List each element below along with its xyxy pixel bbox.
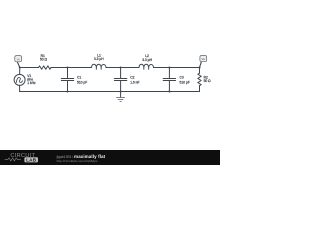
label R2 value <box>204 75 212 83</box>
svg-text:LAB: LAB <box>26 158 37 163</box>
svg-text:1.6 nF: 1.6 nF <box>130 81 139 85</box>
label L1 value <box>94 54 104 62</box>
svg-text:1 kHz: 1 kHz <box>27 81 36 85</box>
wire bottom rail <box>20 91 200 93</box>
capacitor C1 <box>61 68 73 92</box>
node junction Vo attach <box>198 66 200 68</box>
svg-text:3.3 µH: 3.3 µH <box>142 58 152 62</box>
wire L2 to right end <box>154 67 200 69</box>
labels <box>27 54 211 85</box>
svg-text:50 Ω: 50 Ω <box>204 79 212 83</box>
node junction top C1 <box>66 66 68 68</box>
node junction top C2 <box>120 66 122 68</box>
svg-text:510 pF: 510 pF <box>180 81 190 85</box>
node A label Vi <box>15 56 22 62</box>
capacitor C3 <box>163 68 175 92</box>
wire node label pole Vo <box>200 62 202 68</box>
wire V1 top stub <box>19 68 21 75</box>
footer bar <box>0 150 220 165</box>
wire V1 bottom stub <box>19 85 21 91</box>
label V1 value <box>27 74 36 85</box>
svg-text:Vo: Vo <box>202 57 206 61</box>
voltage source V1 <box>14 74 25 85</box>
wire L1 to L2 <box>106 67 139 69</box>
footer logo CircuitLab <box>5 153 38 163</box>
wire top rail left segment <box>20 67 39 69</box>
svg-text:Vi: Vi <box>17 57 20 61</box>
svg-text:C2: C2 <box>130 76 134 80</box>
node junction bottom C3 <box>168 90 170 92</box>
wire node label pole Vi <box>17 62 20 68</box>
label C3 value <box>180 76 190 85</box>
svg-text:3.3 µH: 3.3 µH <box>94 57 104 61</box>
svg-text:50 Ω: 50 Ω <box>40 58 48 62</box>
svg-text:510 pF: 510 pF <box>77 81 87 85</box>
label L2 value <box>142 54 152 62</box>
wire R1 to C1 node <box>51 67 92 69</box>
label R1 value <box>40 54 48 61</box>
inductor L2 <box>139 64 154 69</box>
svg-text:http://circuitlab.com/c/tqh6dp: http://circuitlab.com/c/tqh6dps <box>57 159 98 163</box>
resistor R2 <box>198 68 201 92</box>
node junction top C3 <box>168 66 170 68</box>
node junction bottom ground <box>120 90 122 92</box>
node B label Vo <box>200 56 207 62</box>
svg-text:C3: C3 <box>180 76 184 80</box>
svg-text:C1: C1 <box>77 76 81 80</box>
inductor L1 <box>92 64 107 69</box>
node junction dots <box>19 66 201 92</box>
node junction Vi attach <box>19 66 21 68</box>
label C1 value <box>77 76 87 85</box>
resistor R1 <box>39 66 52 69</box>
label C2 value <box>130 76 139 85</box>
ground <box>117 92 125 102</box>
node junction bottom C1 <box>66 90 68 92</box>
capacitor C2 <box>114 68 126 92</box>
